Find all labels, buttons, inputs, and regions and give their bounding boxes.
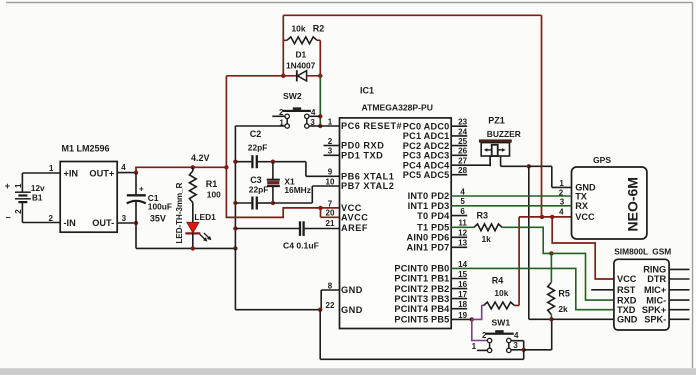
junction PB5 node: [470, 317, 474, 321]
svg-text:19: 19: [458, 311, 467, 320]
svg-text:100uF: 100uF: [148, 201, 172, 211]
wire M1 OUT- to C1 node: [117, 222, 136, 224]
svg-text:PC1 ADC1: PC1 ADC1: [403, 131, 450, 141]
wire R2 right down: [319, 40, 321, 76]
svg-text:1: 1: [14, 183, 23, 188]
svg-text:T1 PD5: T1 PD5: [417, 223, 449, 233]
svg-text:11: 11: [458, 219, 467, 228]
svg-text:PZ1: PZ1: [488, 116, 505, 126]
junction SW2 pin3 node: [318, 124, 322, 128]
junction C2 left: [233, 160, 237, 164]
junction 4.2V rail end: [224, 165, 228, 169]
svg-text:4.2V: 4.2V: [191, 153, 210, 163]
wire battery plus to M1 +IN: [22, 172, 60, 174]
svg-text:2: 2: [14, 209, 23, 214]
wire C2 to XTAL1: [273, 161, 306, 163]
module GPS NEO-6M box: [572, 167, 647, 239]
svg-text:27: 27: [458, 157, 467, 166]
svg-text:16MHz: 16MHz: [284, 185, 311, 195]
wire reset node down to SW2: [319, 76, 321, 126]
svg-text:M1 LM2596: M1 LM2596: [62, 144, 110, 154]
svg-text:3: 3: [513, 341, 518, 350]
crystal X1: [272, 162, 274, 179]
svg-text:35V: 35V: [150, 214, 166, 224]
junction D1 cathode node: [318, 74, 322, 78]
svg-text:GSM: GSM: [652, 247, 671, 257]
junction C4 left: [233, 226, 237, 230]
junction SW2 pin4 node: [318, 114, 322, 118]
svg-text:9: 9: [328, 168, 333, 177]
svg-text:PCINT0 PB0: PCINT0 PB0: [394, 264, 449, 274]
wire bottom rail: [136, 247, 235, 249]
svg-text:RX: RX: [575, 201, 589, 211]
svg-text:GND: GND: [341, 305, 363, 315]
svg-text:R5: R5: [558, 289, 570, 299]
svg-text:15: 15: [458, 270, 467, 279]
wire R3 to divider node: [505, 227, 551, 253]
svg-text:RING: RING: [643, 265, 666, 275]
svg-text:23: 23: [458, 118, 467, 127]
svg-text:PCINT3 PB3: PCINT3 PB3: [394, 294, 449, 304]
switch SW2: [283, 110, 311, 112]
wire PB0 to SIM TXD: [451, 268, 614, 309]
wire PC4 to buzzer: [451, 164, 490, 166]
wire AVCC branch: [320, 208, 322, 217]
wire gnd node to GPS GND: [529, 165, 552, 167]
svg-text:D1: D1: [296, 50, 307, 60]
svg-text:22: 22: [326, 301, 335, 310]
diode D1: [283, 75, 297, 77]
LED LED1: [187, 222, 199, 232]
svg-text:PC4 ADC4: PC4 ADC4: [403, 160, 450, 170]
wire gnd column: [234, 126, 236, 310]
svg-text:12v: 12v: [31, 184, 45, 193]
svg-text:PC0 ADC0: PC0 ADC0: [403, 121, 450, 131]
svg-text:20: 20: [326, 209, 335, 218]
svg-text:1: 1: [472, 342, 477, 351]
svg-text:12: 12: [458, 229, 467, 238]
junction VCC GPS node: [540, 215, 544, 219]
wire SW2 pin1 to gnd column: [235, 125, 285, 127]
buzzer PZ1: [479, 139, 512, 142]
svg-text:1k: 1k: [482, 234, 492, 244]
svg-text:100: 100: [207, 189, 221, 199]
switch SW1: [486, 333, 514, 335]
page border frame: [6, 2, 693, 4]
junction bottom rail to gnd column: [233, 246, 237, 250]
svg-text:1N4007: 1N4007: [286, 61, 316, 71]
wire VCC to reset node: [226, 75, 283, 77]
resistor R4: [484, 302, 515, 309]
svg-text:TX: TX: [575, 191, 588, 201]
svg-text:NEO-6M: NEO-6M: [625, 177, 641, 231]
svg-text:TXD: TXD: [617, 305, 636, 315]
svg-text:R3: R3: [477, 211, 489, 221]
wire SW2 pin3 to IC pin1: [320, 125, 339, 127]
svg-text:C2: C2: [250, 129, 262, 139]
wire battery minus to M1 -IN: [22, 222, 60, 224]
junction C1 bottom: [134, 221, 138, 225]
svg-text:MIC+: MIC+: [644, 285, 666, 295]
svg-text:24: 24: [458, 127, 467, 136]
svg-text:SIM800L: SIM800L: [614, 247, 648, 257]
junction C3 left: [233, 201, 237, 205]
wire gnd column corner to pin22: [235, 309, 320, 311]
wire PD5 to R3: [451, 226, 474, 228]
svg-text:1: 1: [49, 164, 54, 173]
svg-text:INT0 PD2: INT0 PD2: [408, 191, 450, 201]
svg-text:AVCC: AVCC: [341, 213, 368, 223]
svg-text:17: 17: [458, 290, 467, 299]
wire VCC down to R4: [518, 217, 520, 306]
junction LED bottom: [191, 246, 195, 250]
capacitor C3: [235, 202, 251, 204]
svg-text:LED1: LED1: [194, 212, 216, 222]
svg-text:INT1 PD3: INT1 PD3: [408, 201, 450, 211]
microcontroller IC1 ATMEGA328P-PU box: [340, 118, 452, 329]
svg-text:2: 2: [482, 331, 487, 340]
svg-text:22pF: 22pF: [249, 184, 269, 194]
svg-text:T0 PD4: T0 PD4: [417, 211, 450, 221]
wire PD3 to GPS RX: [451, 205, 571, 207]
svg-text:R1: R1: [206, 179, 218, 189]
svg-text:R4: R4: [492, 276, 504, 286]
svg-text:MIC-: MIC-: [646, 295, 666, 305]
wire SW1 node to R5 gnd: [524, 349, 552, 351]
svg-text:PCINT4 PB4: PCINT4 PB4: [394, 304, 450, 314]
svg-text:RST: RST: [617, 285, 636, 295]
wire M1 OUT+ to C1 node: [117, 172, 136, 174]
wire gnd to R5 bottom: [529, 318, 552, 320]
svg-text:4: 4: [460, 187, 465, 196]
svg-text:SPK-: SPK-: [644, 315, 666, 325]
svg-text:1: 1: [328, 117, 333, 126]
wire PB5 stub: [451, 318, 472, 320]
svg-text:7: 7: [328, 199, 333, 208]
svg-text:AIN0 PD6: AIN0 PD6: [407, 233, 450, 243]
svg-text:+: +: [5, 181, 10, 191]
svg-text:-IN: -IN: [64, 218, 77, 228]
svg-text:21: 21: [326, 219, 335, 228]
svg-text:PCINT1 PB1: PCINT1 PB1: [394, 274, 449, 284]
svg-text:SPK+: SPK+: [642, 305, 666, 315]
junction R1 top: [191, 165, 195, 169]
wire PB5 to R4: [472, 306, 484, 320]
svg-text:4: 4: [559, 208, 564, 217]
svg-text:2: 2: [328, 137, 333, 146]
gsm pin RST stub: [591, 289, 614, 291]
svg-text:PD1 TXD: PD1 TXD: [341, 151, 383, 161]
svg-text:22pF: 22pF: [248, 142, 268, 152]
wire SW1 node down to bus: [523, 350, 525, 360]
svg-text:4: 4: [514, 331, 519, 340]
svg-text:GND: GND: [617, 315, 638, 325]
resistor R1: [192, 167, 194, 171]
svg-text:PC2 ADC2: PC2 ADC2: [403, 141, 450, 151]
svg-text:–: –: [6, 212, 11, 222]
svg-text:RXD: RXD: [617, 295, 637, 305]
svg-text:28: 28: [458, 166, 467, 175]
wire bottom gnd bus: [320, 358, 524, 360]
resistor R2: [283, 39, 287, 41]
wire VCC stub pin7: [321, 207, 340, 209]
module M1 LM2596 box: [60, 162, 117, 233]
svg-text:PC5 ADC5: PC5 ADC5: [403, 170, 450, 180]
module SIM800L GSM box: [614, 259, 669, 330]
junction R5 bottom node: [549, 317, 553, 321]
svg-text:LED-TH-3mm_R: LED-TH-3mm_R: [175, 182, 184, 243]
wire PB5 to SW1 pin2: [472, 319, 488, 340]
wire GND pin8 to pin22: [321, 289, 339, 291]
junction crystal bottom: [271, 201, 275, 205]
switch SW1 pin 1 stub: [477, 349, 488, 351]
switch SW2 pin 4 stub: [309, 115, 320, 117]
wire C3 to XTAL2: [273, 202, 312, 204]
svg-text:OUT-: OUT-: [92, 218, 114, 228]
wire SIM GND: [551, 318, 614, 320]
svg-text:VCC: VCC: [575, 212, 595, 222]
svg-text:VCC: VCC: [617, 274, 637, 284]
junction crystal top: [271, 160, 275, 164]
svg-text:PC3 ADC3: PC3 ADC3: [403, 151, 450, 161]
junction D1 anode node: [281, 74, 285, 78]
capacitor C4: [235, 228, 299, 230]
svg-text:PC6 RESET#: PC6 RESET#: [341, 121, 402, 131]
svg-text:3: 3: [310, 118, 315, 127]
svg-text:25: 25: [458, 137, 467, 146]
svg-text:R2: R2: [313, 24, 325, 34]
svg-text:14: 14: [458, 260, 467, 269]
wire gnd down to bus: [319, 310, 321, 360]
capacitor C2: [235, 161, 251, 163]
svg-text:2: 2: [279, 108, 284, 117]
svg-text:2k: 2k: [558, 304, 568, 314]
wire SW1 pin3 to gnd: [511, 349, 524, 351]
svg-text:18: 18: [458, 300, 467, 309]
junction VCC AVCC node: [318, 206, 322, 210]
switch SW2 pin 3 stub: [309, 125, 320, 127]
wire PD2 to GPS TX: [451, 195, 571, 197]
svg-text:OUT+: OUT+: [89, 168, 114, 178]
svg-text:+IN: +IN: [64, 168, 79, 178]
wire VCC run to IC: [226, 167, 320, 217]
svg-text:6: 6: [460, 207, 465, 216]
svg-text:PCINT2 PB2: PCINT2 PB2: [394, 284, 449, 294]
capacitor C1: [135, 173, 137, 195]
switch SW2 pin 2 stub: [272, 115, 285, 117]
wire buzzer gnd column: [528, 166, 530, 319]
resistor R5: [550, 253, 552, 282]
svg-text:PCINT5 PB5: PCINT5 PB5: [394, 315, 449, 325]
svg-text:13: 13: [458, 239, 467, 248]
wire VCC column left: [225, 76, 227, 168]
svg-text:IC1: IC1: [360, 86, 374, 96]
svg-text:GPS: GPS: [593, 155, 611, 165]
junction GND pins node: [318, 308, 322, 312]
wire VCC to SIM: [552, 217, 614, 279]
svg-text:+: +: [139, 185, 144, 194]
svg-text:5: 5: [460, 197, 465, 206]
svg-text:8: 8: [328, 281, 333, 290]
svg-text:BUZZER: BUZZER: [487, 129, 521, 139]
svg-text:SW1: SW1: [492, 317, 511, 327]
junction VCC SIM branch: [550, 215, 554, 219]
wire SW1 pin4 to gnd: [511, 340, 524, 342]
svg-text:AREF: AREF: [341, 223, 368, 233]
resistor R3: [474, 224, 502, 231]
svg-text:PD0 RXD: PD0 RXD: [341, 141, 384, 151]
junction SW1 gnd node: [522, 348, 526, 352]
junction divider node: [549, 251, 553, 255]
svg-text:10: 10: [326, 177, 335, 186]
svg-text:DTR: DTR: [647, 274, 666, 284]
net VCC right column: [541, 15, 543, 217]
svg-text:26: 26: [458, 147, 467, 156]
svg-text:10k: 10k: [292, 24, 306, 34]
svg-text:PB7 XTAL2: PB7 XTAL2: [341, 181, 394, 191]
svg-text:16: 16: [458, 280, 467, 289]
svg-text:SW2: SW2: [283, 91, 302, 101]
svg-text:C4 0.1uF: C4 0.1uF: [283, 240, 319, 250]
junction buzzer gnd node: [527, 164, 531, 168]
svg-text:3: 3: [122, 214, 127, 223]
svg-text:GND: GND: [341, 285, 363, 295]
battery B1: [21, 173, 23, 192]
wire OUT- rail down: [135, 223, 137, 248]
svg-text:ATMEGA328P-PU: ATMEGA328P-PU: [362, 103, 433, 113]
wire GPS VCC run: [519, 216, 571, 218]
wire divider to SIM RXD: [551, 253, 614, 300]
svg-text:10k: 10k: [494, 288, 508, 298]
wire buzzer to gnd node: [501, 165, 529, 167]
svg-text:PB6 XTAL1: PB6 XTAL1: [341, 172, 394, 182]
svg-text:AIN1 PD7: AIN1 PD7: [407, 243, 450, 253]
net 4.2V rail: [135, 167, 137, 173]
svg-text:4: 4: [311, 108, 316, 117]
net VCC top rail: [283, 14, 541, 16]
svg-text:1: 1: [559, 179, 564, 188]
svg-text:B1: B1: [32, 194, 43, 203]
svg-text:4: 4: [121, 163, 126, 172]
wire rail down to D1 anode: [282, 15, 284, 76]
svg-text:2: 2: [49, 214, 54, 223]
svg-text:3: 3: [328, 147, 333, 156]
junction C1 top: [134, 170, 138, 174]
